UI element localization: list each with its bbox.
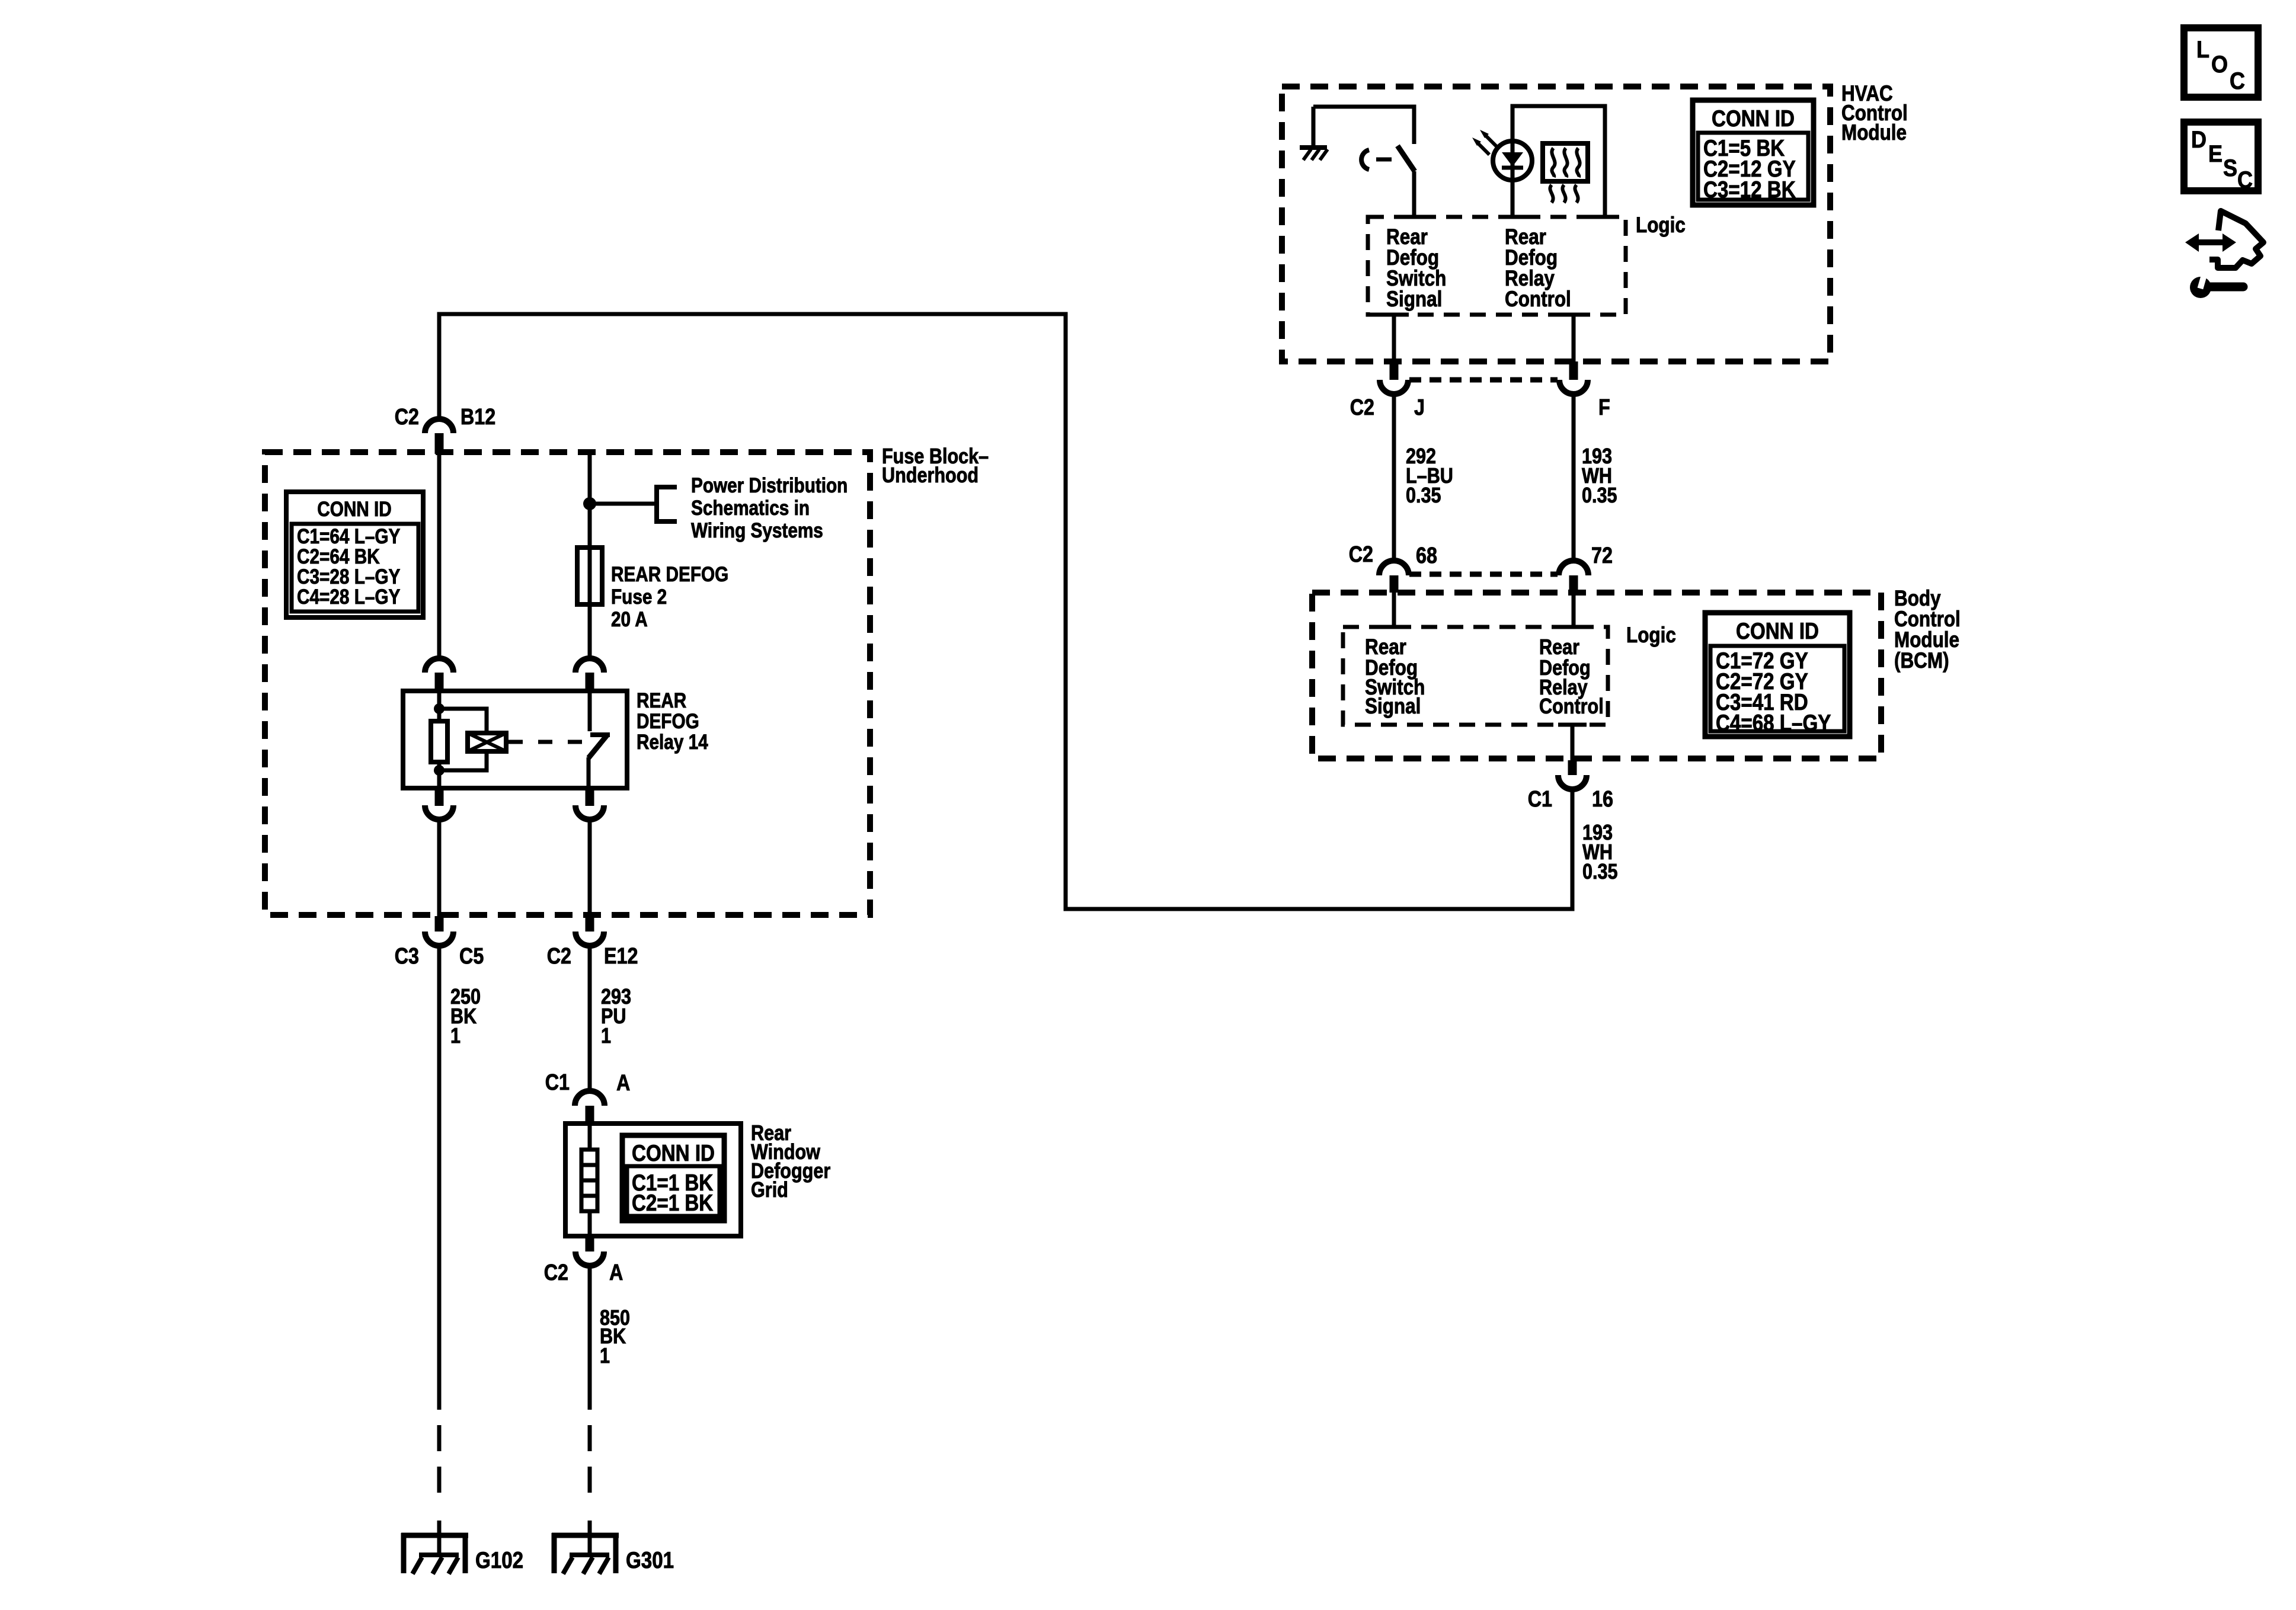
svg-text:C2=1 BK: C2=1 BK xyxy=(632,1189,713,1215)
wire through fuse xyxy=(588,548,592,658)
svg-text:S: S xyxy=(2223,155,2237,181)
connector C2 pin J xyxy=(1390,361,1399,380)
connector into relay (right) xyxy=(575,658,604,673)
svg-text:REAR DEFOG: REAR DEFOG xyxy=(611,563,728,586)
wire 68 into logic xyxy=(1392,593,1396,627)
DESC icon box xyxy=(2184,122,2258,191)
relay K14 REAR DEFOG Relay 14 box xyxy=(403,691,627,788)
wire relay to fuse block bottom (left) xyxy=(437,819,442,916)
wire 193 WH from BCM pin 16 to fuse block terminal B12 xyxy=(439,314,1572,909)
svg-text:C4=28 L–GY: C4=28 L–GY xyxy=(297,585,401,609)
logic box (HVAC) xyxy=(1368,217,1626,315)
connector into relay (left) xyxy=(425,658,453,673)
relay switch contact xyxy=(588,691,592,731)
svg-text:C2: C2 xyxy=(544,1260,568,1285)
wire logic to pin F xyxy=(1572,315,1576,361)
svg-text:Schematics in: Schematics in xyxy=(691,497,810,520)
svg-text:CONN ID: CONN ID xyxy=(1736,617,1819,644)
off-page reference bracket xyxy=(654,485,659,524)
CONN ID table (fuse block) xyxy=(286,492,423,617)
svg-text:E: E xyxy=(2208,141,2223,167)
svg-text:C: C xyxy=(2237,167,2253,193)
svg-text:C2: C2 xyxy=(547,944,571,969)
svg-text:0.35: 0.35 xyxy=(1582,484,1617,508)
connector pin F xyxy=(1569,361,1578,380)
svg-text:1: 1 xyxy=(450,1025,461,1048)
connector C2 terminal B12 (fuse block) xyxy=(425,419,453,433)
svg-text:L: L xyxy=(2196,37,2209,63)
resistor (relay suppression) xyxy=(431,721,447,762)
svg-text:Logic: Logic xyxy=(1626,623,1676,648)
wire logic to pin 16 xyxy=(1571,725,1575,760)
connector C1 pin 16 xyxy=(1568,760,1577,775)
dashed actuation line coil to switch xyxy=(509,740,584,744)
wire 250 BK 1 xyxy=(437,945,442,1384)
svg-text:E12: E12 xyxy=(604,944,638,969)
svg-text:Wiring Systems: Wiring Systems xyxy=(691,519,823,542)
svg-text:Logic: Logic xyxy=(1636,213,1686,238)
connector out of relay (left) xyxy=(435,788,444,806)
fuse REAR DEFOG Fuse 2 20 A xyxy=(577,548,602,604)
ground (HVAC internal) xyxy=(1312,107,1316,147)
connector C3/C5 (fuse block bottom left) xyxy=(435,916,444,932)
svg-text:J: J xyxy=(1414,395,1425,420)
wire branch to power distribution reference xyxy=(590,502,657,506)
svg-text:0.35: 0.35 xyxy=(1582,860,1618,884)
wire LED to logic xyxy=(1511,180,1515,217)
svg-text:Control: Control xyxy=(1505,287,1571,312)
svg-text:C3: C3 xyxy=(395,944,419,969)
CONN ID table (HVAC) xyxy=(1693,100,1814,205)
rear window heater icon xyxy=(1543,143,1588,181)
svg-text:C1: C1 xyxy=(545,1070,570,1095)
wire relay to fuse block bottom (right) xyxy=(588,819,592,916)
svg-text:B12: B12 xyxy=(461,405,495,430)
rear window defogger grid box xyxy=(565,1124,741,1236)
svg-text:20 A: 20 A xyxy=(611,608,648,631)
fuse block - underhood dashed box xyxy=(265,452,870,915)
connector C2/A (grid bottom) xyxy=(586,1234,594,1251)
svg-text:Signal: Signal xyxy=(1365,694,1421,719)
svg-text:C3=12 BK: C3=12 BK xyxy=(1703,176,1796,202)
junction node (power distribution tap) xyxy=(583,497,596,510)
relay coil branch wires xyxy=(437,691,442,721)
svg-text:CONN ID: CONN ID xyxy=(1712,105,1795,131)
wire 292 L-BU 0.35 xyxy=(1392,394,1396,561)
junction dot (coil bottom) xyxy=(434,765,445,776)
wire ground to switch xyxy=(1313,107,1414,144)
svg-text:O: O xyxy=(2211,52,2228,78)
svg-text:C2: C2 xyxy=(1350,395,1374,420)
connector pin 72 (BCM top right) xyxy=(1559,561,1588,575)
svg-text:72: 72 xyxy=(1591,543,1613,568)
svg-text:C2: C2 xyxy=(1349,542,1373,567)
svg-text:Control: Control xyxy=(1539,695,1604,719)
svg-text:Underhood: Underhood xyxy=(882,464,978,488)
svg-text:Rear: Rear xyxy=(1539,636,1579,660)
LOC icon box xyxy=(2184,28,2258,97)
grid heating element xyxy=(588,1124,592,1150)
svg-text:Signal: Signal xyxy=(1386,287,1442,312)
svg-text:Power Distribution: Power Distribution xyxy=(691,474,848,497)
rear defog switch (open) xyxy=(1398,146,1415,171)
wrench xyxy=(2190,277,2211,298)
svg-text:Relay 14: Relay 14 xyxy=(637,731,708,754)
ground G301 xyxy=(552,1533,619,1538)
wire B12 to relay coil xyxy=(437,454,442,658)
svg-text:Module: Module xyxy=(1841,121,1907,145)
HVAC control module dashed box xyxy=(1282,87,1830,361)
connector C2/E12 (fuse block bottom right) xyxy=(586,916,594,932)
svg-text:C1: C1 xyxy=(1528,787,1552,812)
wire 850 BK 1 xyxy=(588,1266,592,1384)
svg-text:C5: C5 xyxy=(459,944,484,969)
LED indicator xyxy=(1511,141,1515,180)
svg-text:1: 1 xyxy=(600,1345,610,1368)
LED light arrows xyxy=(1485,135,1497,147)
body control module dashed box xyxy=(1312,593,1881,758)
svg-text:Grid: Grid xyxy=(751,1179,788,1202)
relay coil (box with X) xyxy=(468,733,506,751)
logic box (BCM) xyxy=(1343,627,1608,725)
svg-text:68: 68 xyxy=(1416,543,1437,568)
svg-text:CONN ID: CONN ID xyxy=(632,1140,715,1166)
dashed wire to ground G102 xyxy=(437,1384,442,1507)
svg-text:0.35: 0.35 xyxy=(1406,484,1441,508)
svg-text:A: A xyxy=(616,1071,630,1096)
dashed wire to ground G301 xyxy=(588,1384,592,1507)
svg-text:F: F xyxy=(1598,395,1610,420)
svg-text:A: A xyxy=(609,1260,623,1285)
connector C1/A (grid top) xyxy=(575,1091,605,1106)
svg-text:G102: G102 xyxy=(475,1547,523,1573)
wire 293 PU 1 xyxy=(588,945,592,1091)
svg-text:1: 1 xyxy=(601,1025,611,1048)
connector C2 pin 68 (BCM top left) xyxy=(1379,561,1409,575)
svg-text:(BCM): (BCM) xyxy=(1894,649,1949,673)
dashed connector link J-F xyxy=(1409,377,1558,383)
CONN ID table (BCM) xyxy=(1705,613,1850,737)
wire logic to pin J xyxy=(1392,315,1396,361)
svg-text:C: C xyxy=(2230,68,2245,94)
CONN ID table (grid) xyxy=(622,1135,724,1221)
ground G102 xyxy=(401,1533,468,1538)
wire LED top loop xyxy=(1512,106,1605,217)
junction dot (coil top) xyxy=(434,703,445,714)
svg-text:C2: C2 xyxy=(395,405,419,430)
momentary switch actuator symbol xyxy=(1361,150,1369,169)
dashed connector link 68-72 xyxy=(1409,572,1558,577)
svg-text:DEFOG: DEFOG xyxy=(637,710,699,733)
wire fuse feed from fuse block top xyxy=(588,452,592,548)
svg-text:REAR: REAR xyxy=(637,689,686,712)
svg-text:C3=28 L–GY: C3=28 L–GY xyxy=(297,565,401,588)
svg-text:16: 16 xyxy=(1592,787,1613,812)
svg-text:C4=68 L–GY: C4=68 L–GY xyxy=(1716,709,1831,735)
svg-text:CONN ID: CONN ID xyxy=(317,498,392,521)
svg-text:C1=64 L–GY: C1=64 L–GY xyxy=(297,525,401,548)
svg-text:C2=64 BK: C2=64 BK xyxy=(297,545,380,568)
svg-text:Fuse 2: Fuse 2 xyxy=(611,585,667,609)
diagram navigation icon (double arrow, connector outline, wrench) xyxy=(2185,233,2236,252)
connector out of relay (right) xyxy=(586,788,594,806)
svg-text:D: D xyxy=(2191,127,2207,153)
wire 193 WH 0.35 (upper) xyxy=(1572,394,1576,561)
svg-text:G301: G301 xyxy=(626,1547,674,1573)
wire 72 into logic xyxy=(1572,593,1576,627)
